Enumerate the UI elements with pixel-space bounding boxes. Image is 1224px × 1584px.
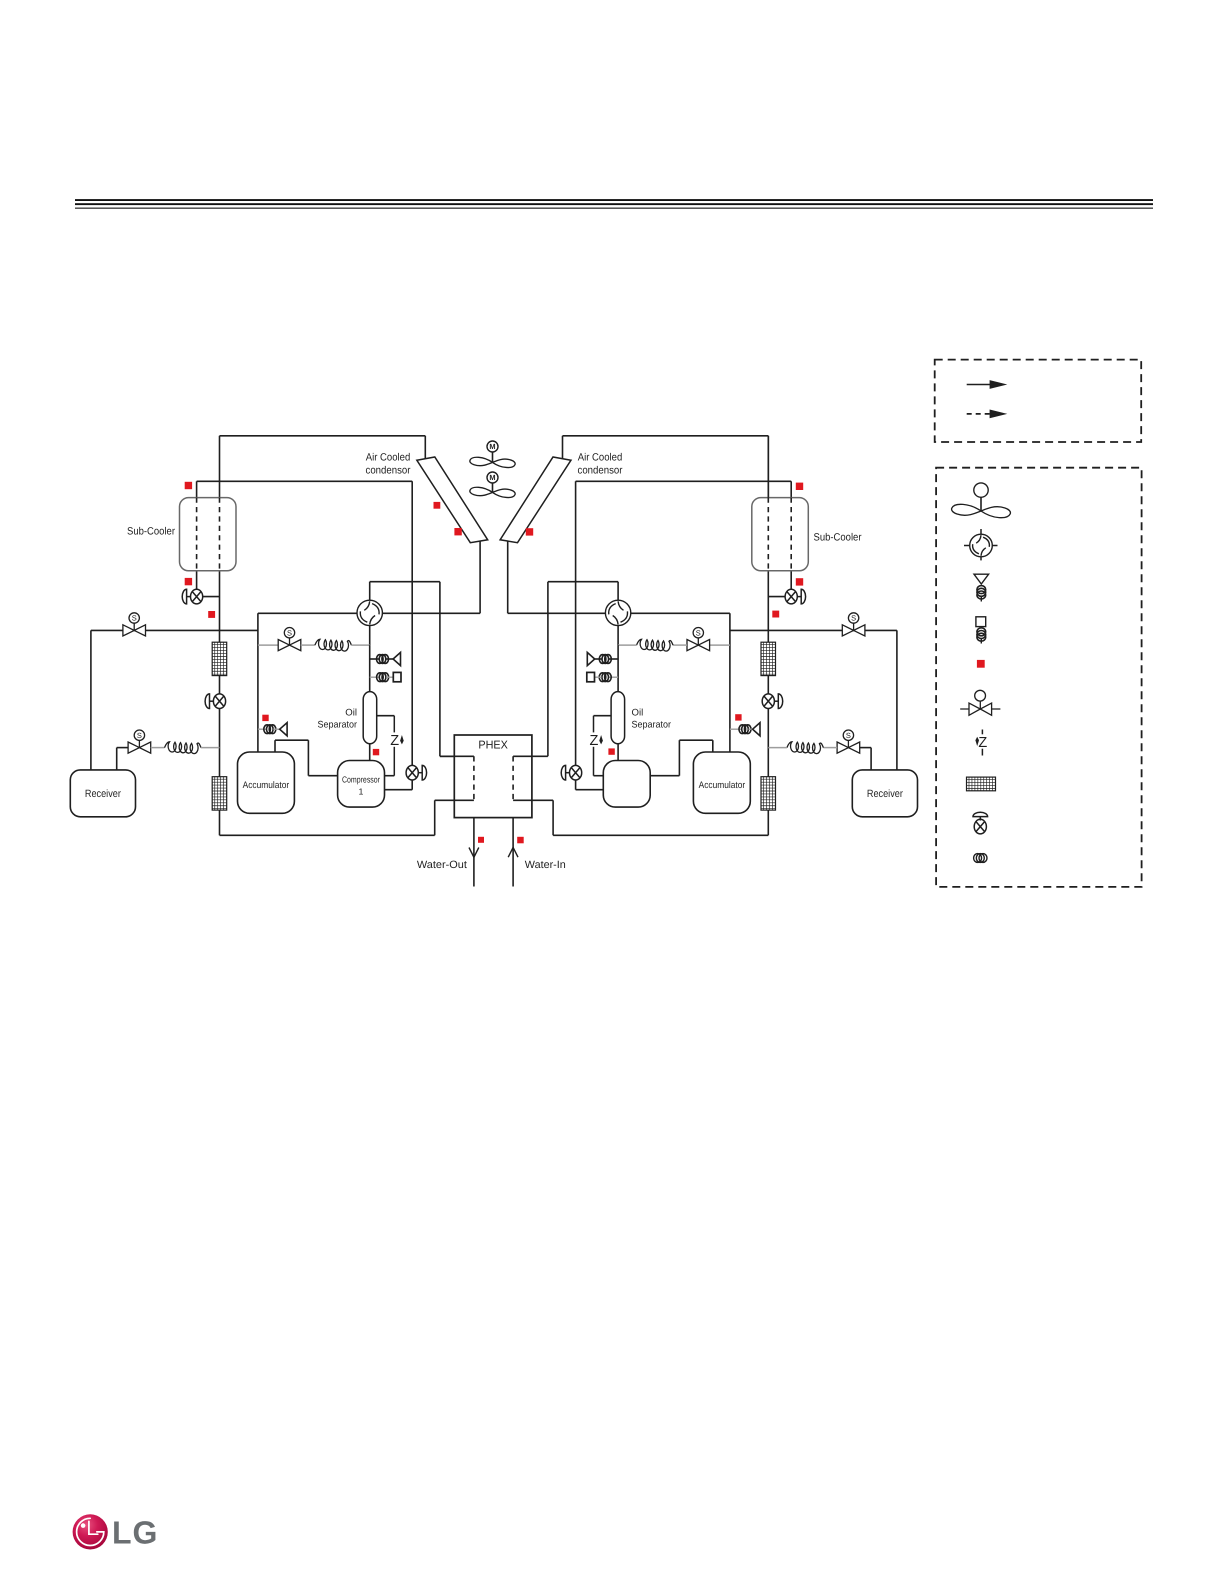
wire: PHEX right exit drop: [552, 800, 554, 835]
sub-cooler heat exchanger (right): [752, 498, 809, 571]
water outlet arrow: [469, 848, 479, 858]
wire: sub-cooler left pipe (dashed inside): [196, 498, 198, 571]
right accumulator stub: grey line: [730, 728, 742, 730]
wire: discharge drop to PHEX (left): [439, 582, 441, 757]
wire: right suction jog up: [712, 740, 714, 752]
wire: capillary to square (grey): [386, 676, 393, 678]
right accumulator stub: red sensor: [735, 714, 741, 720]
wire: right main to lower filter: [767, 709, 769, 777]
wire: S2 to coil (grey): [151, 747, 165, 749]
4-way reversing valve (right): [605, 600, 630, 625]
PHEX internal dashed pass (right): [512, 756, 514, 800]
svg-text:Oil: Oil: [345, 708, 357, 719]
oil separator vessel (right): [611, 692, 625, 744]
accumulator check stub: red sensor: [262, 715, 268, 721]
legend symbol: Z metering: [975, 730, 987, 756]
svg-text:PHEX: PHEX: [478, 739, 508, 751]
svg-text:Water-In: Water-In: [525, 859, 566, 871]
water inlet pipe: [512, 818, 514, 887]
solenoid valve S2 line (receiver charge): [117, 747, 128, 749]
wire: right sub-cooler dashes redraw 2: [767, 498, 769, 571]
wire: 4-way to condenser drop: [382, 612, 480, 614]
wire: right suction header: [631, 612, 730, 614]
check valve branch upper: link to check valve: [386, 658, 393, 660]
sensor dot: water inlet (red): [517, 837, 524, 844]
wire: right 4-way top jog: [617, 582, 619, 601]
wire: sub-cooler valve to main line: [203, 596, 220, 598]
wire: left outer top header: [220, 435, 426, 437]
svg-text:S: S: [846, 731, 851, 740]
wire: right coil to main (grey): [768, 747, 787, 749]
accumulator vessel (left): [238, 752, 295, 813]
wire: 4-way top to discharge jog: [369, 582, 371, 601]
strainer/filter F2 (left main line): [212, 777, 227, 810]
right oil return: separator link: [594, 715, 612, 717]
svg-text:M: M: [489, 473, 495, 482]
svg-text:Oil: Oil: [632, 708, 644, 719]
right oil return: Z metering leg: [589, 716, 602, 776]
wire: main line between filters: [219, 676, 221, 694]
water inlet arrow: [508, 847, 518, 857]
wire: suction header (box top): [258, 612, 357, 614]
wire: right sub-cooler pipe to valve: [790, 571, 792, 590]
4-way reversing valve (left): [357, 600, 382, 625]
right capillary branch: stub (grey): [609, 676, 618, 678]
receiver vessel (right): [852, 770, 917, 817]
capillary branch lower: stub (grey): [370, 676, 379, 678]
svg-text:LG: LG: [112, 1515, 158, 1551]
accumulator check stub: check valve: [280, 723, 287, 736]
sensor dot: right sub-cooler inlet (red): [796, 483, 803, 490]
wire: compressor discharge to riser: [385, 789, 413, 791]
legend symbol: expansion valve (triangle + coil): [974, 574, 989, 601]
wire: right main line mid: [767, 676, 769, 694]
svg-text:S: S: [132, 614, 137, 623]
svg-text:S: S: [137, 731, 142, 740]
accumulator check stub: grey line: [258, 728, 266, 730]
compressor 1 body: [338, 761, 385, 808]
check valve upper: [393, 652, 400, 665]
wire: right 4-way to condenser drop: [508, 612, 606, 614]
sub-cooler heat exchanger (left): [180, 498, 237, 571]
service valve: main line mid: [205, 694, 225, 709]
wire: receiver left down-pipe: [90, 630, 92, 770]
wire: accumulator suction jog up: [274, 740, 276, 752]
strainer/filter F1 (left main line): [212, 642, 227, 675]
wire: coil to main line (grey): [201, 747, 220, 749]
wire: suction jog right: [275, 739, 308, 741]
wire: right condenser top riser: [562, 436, 564, 459]
svg-text:Air Cooledcondensor: Air Cooledcondensor: [578, 452, 623, 477]
wire: receiver stub down: [116, 748, 118, 770]
air-cooled condenser coil 2 (slab): [500, 457, 571, 543]
solenoid valve S3R line (grey): [710, 644, 730, 646]
wire: left condenser bottom drop to 4-way line: [479, 541, 481, 613]
svg-text:Z: Z: [589, 733, 598, 749]
wire: right outer side drop: [767, 436, 769, 498]
wire: PHEX right bottom exit: [513, 799, 553, 801]
solenoid valve S3 line segment (grey): [258, 644, 278, 646]
solenoid valve S3R: [687, 628, 710, 651]
sensor dot: compressor discharge (red): [373, 749, 379, 755]
legend symbol: service valve: [973, 812, 988, 834]
wire: right discharge jog: [548, 581, 618, 583]
sensor dot: liquid line (red): [208, 611, 215, 618]
wire: right sub-cooler inner pipe top: [790, 481, 792, 497]
strainer/filter F2R: [761, 777, 776, 810]
wire: PHEX right port entry: [513, 755, 548, 757]
svg-text:Separator: Separator: [632, 720, 672, 731]
solenoid valve S1 line (receiver top): [91, 629, 258, 631]
solenoid valve S3 (EVI): [278, 628, 301, 651]
wire: right suction jog down: [678, 740, 680, 776]
svg-text:S: S: [851, 614, 856, 623]
wire: sub-cooler dashes redraw left pipe: [196, 498, 198, 571]
wire: suction into compressor: [308, 775, 337, 777]
wire: discharge riser (inner right vertical): [411, 481, 413, 766]
wire: into PHEX left port: [440, 755, 474, 757]
wire: right suction into compressor: [650, 775, 679, 777]
fan F1 with motor M: [470, 441, 515, 468]
wire: discharge jog horizontal: [370, 581, 440, 583]
capillary branch lower: coil: [377, 673, 389, 682]
wire: S3 to coil (grey): [301, 644, 315, 646]
svg-text:Accumulator: Accumulator: [699, 780, 746, 791]
wire: right outer top header: [563, 435, 769, 437]
wire: S3R coil link (grey): [673, 644, 687, 646]
wire: right main line bottom: [767, 810, 769, 835]
oil return: Z metering down-leg: [390, 716, 403, 776]
wire: right suction jog across: [679, 739, 712, 741]
legend symbol: sensor (red square): [977, 660, 985, 668]
wire: S2R to coil (grey): [823, 747, 837, 749]
right check branch upper: line: [609, 658, 618, 660]
service valve: right discharge riser: [561, 765, 581, 780]
svg-text:M: M: [489, 442, 495, 451]
wire: 4-way bottom to expansion line: [369, 626, 371, 646]
heater coil (EVI line): [315, 639, 352, 651]
legend symbol: fan: [952, 483, 1011, 518]
sensor dot: right liquid line (red): [772, 611, 779, 618]
PHEX internal dashed pass (left): [473, 756, 475, 800]
legend: liquid flow arrow (solid): [967, 380, 1008, 389]
legend symbol: heater coil: [974, 854, 987, 863]
svg-text:Compressor: Compressor: [342, 774, 380, 784]
wire: coil to 4-way drop (grey): [351, 644, 369, 646]
solenoid valve S2: [128, 730, 151, 753]
strainer/filter F1R: [761, 642, 776, 675]
wire: right 4-way bottom drop: [617, 626, 619, 646]
solenoid valve S2R line: [860, 747, 871, 749]
wire: left condenser top riser: [424, 436, 426, 459]
legend symbol: 4-way valve: [964, 529, 998, 560]
wire: PHEX left exit drop: [434, 800, 436, 835]
right accumulator stub: capillary coil: [739, 725, 751, 734]
right accumulator stub: check valve: [753, 723, 760, 736]
wire: right coil to 4-way (grey): [618, 644, 636, 646]
wire: main liquid line at sub-cooler (top): [219, 436, 221, 498]
wire: sub-cooler left pipe (to service valve): [196, 571, 198, 590]
heater coil (receiver line): [165, 742, 202, 754]
wire: box left vertical (to accumulator): [257, 613, 259, 752]
wire: right receiver stub down: [870, 748, 872, 770]
svg-text:Receiver: Receiver: [867, 788, 903, 800]
wire: sub-cooler left pipe (top): [196, 481, 198, 497]
legend symbol: strainer/filter: [967, 777, 996, 791]
wire: left liquid header (inner top): [197, 480, 413, 482]
svg-text:Z: Z: [390, 733, 399, 749]
compressor 2 body: [603, 761, 650, 808]
wire: right main line top: [767, 436, 769, 498]
capillary branch lower: square port: [393, 672, 401, 681]
wire: right expansion drop: [617, 645, 619, 692]
sensor dot: sub-cooler inlet (red): [185, 482, 192, 489]
wire: right main line below sub-cooler: [767, 571, 769, 642]
wire: main liquid line (below sub-cooler): [219, 571, 221, 642]
wire: suction jog down: [307, 740, 309, 776]
service valve: sub-cooler line: [182, 589, 202, 604]
PHEX plate heat exchanger: [454, 735, 532, 818]
wire: oil separator to compressor top: [369, 744, 371, 761]
wire: right liquid header (inner top): [576, 480, 792, 482]
wire: right discharge riser lower: [575, 779, 577, 790]
wire: right main line dashed: [767, 498, 769, 571]
svg-text:1: 1: [359, 786, 364, 796]
wire: right sub-cooler dashes redraw 1: [790, 498, 792, 571]
wire: main liquid line (dashed inside sub-cooler): [219, 498, 221, 571]
wire: sub-cooler dashes redraw main pipe: [219, 498, 221, 571]
heater coil (right EVI line): [637, 639, 674, 651]
svg-text:Water-Out: Water-Out: [417, 859, 467, 871]
water outlet pipe: [473, 818, 475, 887]
solenoid valve S2R: [837, 730, 860, 753]
legend symbol: capillary with square port: [976, 617, 986, 627]
wire: right discharge riser upper: [575, 481, 577, 766]
header rule (triple line): [75, 199, 1153, 209]
wire: PHEX left port entry: [440, 755, 474, 757]
accumulator check stub: grey line 2: [273, 728, 279, 730]
oil separator vessel (left): [363, 692, 377, 744]
sensor dot: water outlet (red): [478, 837, 484, 843]
right accumulator stub: grey line 2: [749, 728, 753, 730]
wire: right receiver down-pipe: [896, 630, 898, 770]
service valve: right sub-cooler line: [785, 589, 805, 604]
svg-text:S: S: [696, 628, 701, 637]
wire: discharge riser lower segment: [411, 779, 413, 790]
receiver vessel (left): [70, 770, 135, 817]
LG logo mark: [73, 1514, 108, 1549]
sensor dot: left condenser lower (red): [454, 528, 461, 535]
legend box: flow arrows: [935, 360, 1141, 442]
right capillary branch: square port: [587, 672, 595, 681]
heater coil (right receiver line): [787, 742, 824, 754]
sensor dot: sub-cooler outlet (red): [185, 578, 192, 585]
sensor dot: left condenser upper (red): [434, 502, 441, 509]
oil return: into compressor right: [385, 775, 395, 777]
sensor dot: right sub-cooler outlet (red): [796, 578, 803, 585]
wire: main line to lower filter: [219, 709, 221, 777]
wire: right bottom run: [553, 834, 768, 836]
solenoid valve S1R line: [730, 629, 897, 631]
right capillary branch: coil: [599, 673, 611, 682]
svg-text:Sub-Cooler: Sub-Cooler: [814, 532, 862, 544]
svg-text:Z: Z: [978, 735, 987, 751]
legend box: symbols: [936, 468, 1142, 887]
solenoid valve S1: [123, 613, 146, 636]
right oil return: into compressor: [594, 775, 604, 777]
wire: right compressor discharge link: [576, 789, 604, 791]
wire: main line filter to bottom corner: [219, 810, 221, 835]
svg-text:Accumulator: Accumulator: [243, 780, 290, 791]
air-cooled condenser coil 1 (slab): [417, 457, 488, 543]
right check branch upper: link: [595, 658, 602, 660]
wire: right sub-cooler valve link: [768, 596, 785, 598]
wire: right sub-cooler inner pipe dashed: [790, 498, 792, 571]
legend: gas flow arrow (dashed): [967, 410, 1008, 419]
wire: left bottom run to PHEX: [220, 834, 435, 836]
service valve: discharge riser: [406, 765, 426, 780]
right check branch upper: check valve: [587, 652, 594, 665]
wire: expansion drop to oil separator: [369, 645, 371, 692]
wire: PHEX left bottom exit: [435, 799, 474, 801]
legend symbol: solenoid valve: [960, 690, 1000, 715]
wire: right discharge drop to PHEX: [547, 582, 549, 757]
svg-text:Receiver: Receiver: [85, 788, 121, 800]
wire: right box vertical: [729, 613, 731, 752]
svg-text:Air Cooledcondensor: Air Cooledcondensor: [366, 452, 411, 477]
accumulator vessel (right): [693, 752, 750, 813]
svg-text:S: S: [287, 628, 292, 637]
check valve branch upper: line: [370, 658, 379, 660]
svg-text:Sub-Cooler: Sub-Cooler: [127, 526, 175, 538]
check valve branch upper: capillary coil: [377, 655, 389, 664]
sensor dot: right compressor discharge (red): [608, 748, 614, 754]
wire: right separator to compressor: [617, 744, 619, 761]
wire: right condenser bottom drop: [507, 541, 509, 613]
sensor dot: right condenser lower (red): [526, 528, 533, 535]
accumulator check stub: capillary coil: [264, 725, 276, 734]
right check branch upper: capillary coil: [599, 655, 611, 664]
solenoid valve S1R: [842, 613, 865, 636]
oil return: separator to down-leg: [377, 715, 395, 717]
right capillary to square (grey): [595, 676, 602, 678]
fan F2 with motor M: [470, 472, 515, 498]
service valve: right main line: [762, 694, 782, 709]
svg-text:Separator: Separator: [318, 720, 358, 731]
